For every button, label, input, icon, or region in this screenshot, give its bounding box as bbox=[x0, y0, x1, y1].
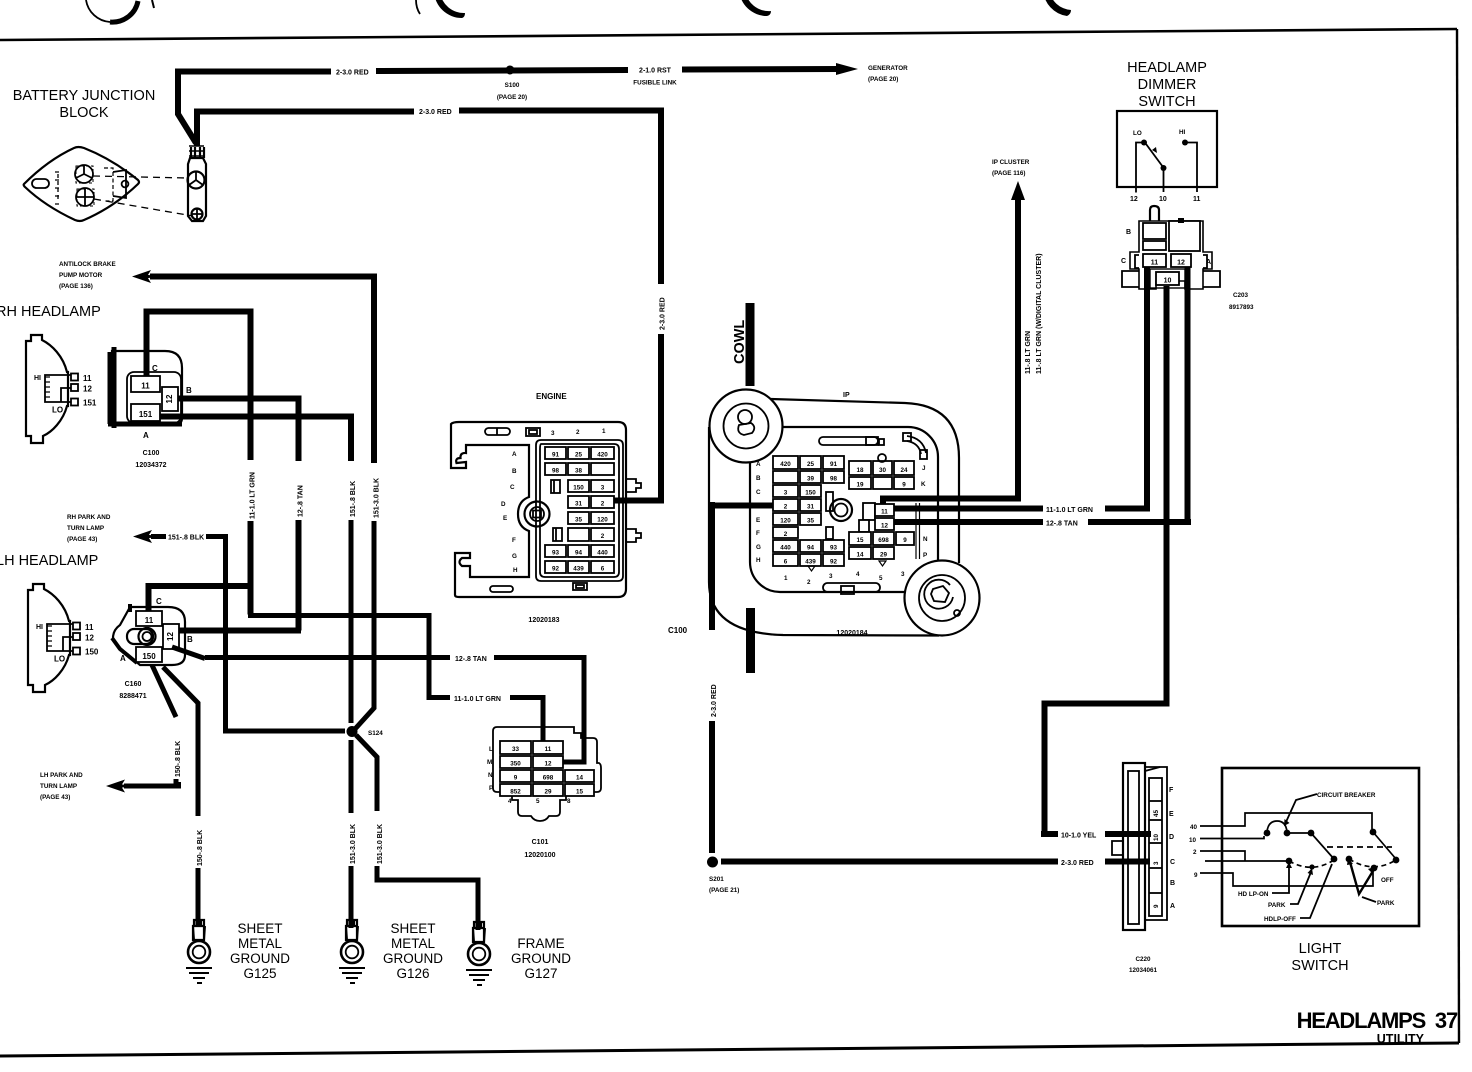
svg-text:11: 11 bbox=[145, 616, 154, 625]
C160 bulb symbol bbox=[127, 629, 153, 644]
svg-text:C101: C101 bbox=[532, 839, 549, 846]
svg-text:10: 10 bbox=[1153, 833, 1160, 841]
svg-text:C: C bbox=[756, 489, 761, 496]
wire 151-3.0 BLK continues to S124 diagonal bbox=[355, 521, 374, 729]
C100 pin 151 box bbox=[131, 404, 160, 421]
ground ring terminal G126 bbox=[339, 920, 365, 983]
svg-text:440: 440 bbox=[780, 545, 791, 552]
svg-text:2: 2 bbox=[1193, 849, 1197, 856]
svg-text:11: 11 bbox=[83, 374, 92, 383]
wire 151 circuit from RH pin A bbox=[160, 417, 351, 462]
svg-text:150-.8 BLK: 150-.8 BLK bbox=[175, 741, 182, 777]
svg-text:2: 2 bbox=[784, 531, 788, 538]
switch arm bbox=[1146, 144, 1163, 167]
svg-text:B: B bbox=[756, 475, 761, 482]
svg-text:G: G bbox=[512, 553, 517, 560]
svg-text:A: A bbox=[1170, 903, 1175, 910]
wire 12-.8 TAN to C101 bbox=[172, 647, 584, 762]
svg-text:C: C bbox=[152, 364, 158, 373]
svg-text:94: 94 bbox=[807, 545, 815, 552]
C100 pin 12 box (rotated) bbox=[162, 387, 178, 411]
connector C203 assembly bbox=[1121, 206, 1220, 289]
svg-text:HEADLAMP: HEADLAMP bbox=[1127, 60, 1207, 76]
svg-text:12020184: 12020184 bbox=[836, 630, 867, 637]
svg-text:2: 2 bbox=[601, 501, 605, 508]
svg-text:10-1.0 YEL: 10-1.0 YEL bbox=[1061, 833, 1097, 840]
wire 151-3.0 BLK antilock run bbox=[150, 277, 374, 464]
svg-text:2-3.0 RED: 2-3.0 RED bbox=[1061, 860, 1094, 867]
svg-text:TURN LAMP: TURN LAMP bbox=[67, 525, 104, 532]
wire 2-3.0 RED top run to generator bbox=[175, 69, 840, 72]
svg-text:98: 98 bbox=[552, 468, 560, 475]
svg-text:2: 2 bbox=[784, 504, 788, 511]
svg-text:C: C bbox=[1121, 258, 1126, 265]
svg-text:H: H bbox=[756, 557, 761, 564]
svg-text:9: 9 bbox=[903, 537, 907, 544]
svg-text:3: 3 bbox=[1153, 861, 1160, 865]
battery junction block dashed small detail bbox=[55, 172, 61, 204]
battery junction block side bracket bbox=[104, 168, 113, 201]
engine relay slot C bbox=[551, 480, 560, 493]
svg-text:G127: G127 bbox=[524, 966, 557, 981]
svg-text:M: M bbox=[487, 759, 492, 766]
svg-text:SHEET: SHEET bbox=[390, 921, 435, 936]
svg-text:C203: C203 bbox=[1233, 292, 1249, 299]
engine right tabs bbox=[626, 479, 641, 542]
wire 2-3.0 RED vertical lower part into engine fuse 2 bbox=[614, 334, 661, 501]
svg-text:91: 91 bbox=[830, 461, 838, 468]
svg-text:4: 4 bbox=[508, 798, 512, 805]
wire 11 circuit from RH pin C bbox=[147, 312, 251, 461]
svg-text:10: 10 bbox=[1189, 837, 1197, 844]
svg-text:93: 93 bbox=[830, 545, 838, 552]
svg-text:B: B bbox=[512, 468, 517, 475]
svg-text:ENGINE: ENGINE bbox=[536, 392, 567, 401]
svg-text:A: A bbox=[120, 654, 126, 663]
svg-text:LH HEADLAMP: LH HEADLAMP bbox=[0, 553, 98, 569]
svg-text:11-1.0 LT GRN: 11-1.0 LT GRN bbox=[454, 696, 501, 703]
svg-text:B: B bbox=[186, 386, 192, 395]
svg-text:F: F bbox=[512, 537, 516, 544]
page border top line bbox=[0, 29, 1457, 40]
IP N/P grid bbox=[849, 532, 871, 545]
IP fuse row D bbox=[773, 499, 798, 511]
splice S124 dot bbox=[347, 726, 358, 737]
svg-text:(PAGE 20): (PAGE 20) bbox=[497, 94, 527, 101]
scan artifact ring 2 bbox=[416, 0, 420, 14]
ground ring terminal G127 bbox=[466, 922, 492, 985]
svg-text:LH PARK AND: LH PARK AND bbox=[40, 772, 83, 779]
cowl boundary line lower bbox=[746, 608, 755, 673]
svg-text:25: 25 bbox=[807, 461, 815, 468]
svg-text:P: P bbox=[923, 552, 927, 559]
input wire 10 bbox=[1200, 836, 1264, 839]
wire from S124 down to G126 bbox=[349, 740, 354, 813]
scan artifact ring 3 bbox=[739, 0, 771, 16]
svg-text:35: 35 bbox=[575, 517, 583, 524]
svg-text:SHEET: SHEET bbox=[237, 921, 282, 936]
IP fuse row E bbox=[773, 513, 798, 525]
wire 12 circuit continues down to LH bbox=[296, 520, 302, 631]
svg-text:151-3.0 BLK: 151-3.0 BLK bbox=[377, 824, 384, 864]
wire 2-3.0 RED feed from battery terminal up bbox=[178, 72, 196, 143]
svg-text:PARK: PARK bbox=[1377, 900, 1395, 907]
svg-text:31: 31 bbox=[575, 501, 583, 508]
wire S124 diagonal down to G127 run bbox=[356, 735, 377, 811]
svg-text:852: 852 bbox=[510, 789, 521, 796]
svg-text:8288471: 8288471 bbox=[119, 693, 146, 700]
svg-text:C: C bbox=[1170, 859, 1175, 866]
svg-text:19: 19 bbox=[856, 482, 864, 489]
C203 side wings bbox=[1135, 255, 1207, 268]
svg-text:(PAGE 43): (PAGE 43) bbox=[40, 794, 70, 801]
svg-text:2-1.0 RST: 2-1.0 RST bbox=[639, 68, 672, 75]
IP top slot bbox=[819, 437, 878, 445]
svg-text:30: 30 bbox=[879, 467, 887, 474]
svg-text:2: 2 bbox=[807, 579, 811, 586]
wire 12-.8 TAN from IP to dimmer bbox=[894, 266, 1191, 525]
svg-text:LIGHT: LIGHT bbox=[1299, 941, 1342, 957]
svg-text:9: 9 bbox=[1153, 904, 1160, 908]
svg-text:698: 698 bbox=[543, 775, 554, 782]
svg-text:420: 420 bbox=[597, 452, 608, 459]
svg-text:C100: C100 bbox=[143, 450, 160, 457]
svg-text:12: 12 bbox=[544, 761, 552, 768]
svg-text:E: E bbox=[1169, 811, 1174, 818]
svg-text:439: 439 bbox=[805, 559, 816, 566]
svg-text:G126: G126 bbox=[396, 966, 429, 981]
svg-text:151: 151 bbox=[83, 399, 97, 408]
svg-text:9: 9 bbox=[902, 482, 906, 489]
svg-text:12: 12 bbox=[881, 523, 889, 530]
wire 11-.8 LT GRN to IP cluster bbox=[883, 198, 1021, 504]
C101 grid row P bbox=[500, 784, 531, 796]
svg-text:12020100: 12020100 bbox=[524, 852, 555, 859]
svg-text:11-1.0 LT GRN: 11-1.0 LT GRN bbox=[1046, 507, 1093, 514]
ring terminal upper eye bbox=[188, 172, 205, 189]
svg-text:11: 11 bbox=[85, 623, 94, 632]
svg-text:2: 2 bbox=[601, 533, 605, 540]
svg-text:5: 5 bbox=[536, 798, 540, 805]
wire G127 run continues right and down bbox=[377, 866, 478, 930]
svg-text:SWITCH: SWITCH bbox=[1291, 958, 1348, 974]
svg-text:3: 3 bbox=[551, 430, 555, 437]
IP corner slot bbox=[907, 436, 926, 454]
svg-text:5: 5 bbox=[879, 575, 883, 582]
scan artifact ring 1 bbox=[86, 0, 110, 22]
engine fuse row H bbox=[545, 561, 566, 573]
svg-text:120: 120 bbox=[780, 518, 791, 525]
arrow to RH park and turn lamp bbox=[133, 530, 153, 543]
svg-text:350: 350 bbox=[510, 761, 521, 768]
engine fuse row A bbox=[545, 447, 566, 459]
svg-text:(PAGE 20): (PAGE 20) bbox=[868, 76, 898, 83]
svg-text:12020183: 12020183 bbox=[528, 617, 559, 624]
svg-text:UTILITY: UTILITY bbox=[1377, 1032, 1425, 1046]
svg-text:11: 11 bbox=[545, 746, 552, 753]
C160 pin 12 box (rotated) bbox=[163, 624, 179, 649]
dashed arc left bbox=[1289, 860, 1334, 867]
svg-text:G125: G125 bbox=[243, 966, 276, 981]
svg-text:12034372: 12034372 bbox=[135, 462, 166, 469]
wire 11-1.0 LT GRN from IP to dimmer bbox=[894, 266, 1150, 511]
svg-text:RH HEADLAMP: RH HEADLAMP bbox=[0, 304, 101, 320]
svg-text:420: 420 bbox=[780, 461, 791, 468]
svg-text:1: 1 bbox=[784, 575, 788, 582]
C203 body bbox=[1130, 221, 1212, 289]
IP fuse row H bbox=[773, 554, 798, 566]
svg-text:D: D bbox=[1169, 834, 1174, 841]
wire 11 circuit continues down to LH bbox=[248, 521, 254, 615]
svg-text:S100: S100 bbox=[505, 82, 520, 89]
svg-text:12: 12 bbox=[83, 385, 92, 394]
pivot contact bbox=[1161, 165, 1167, 171]
engine relay slot F bbox=[553, 528, 562, 541]
svg-text:11: 11 bbox=[141, 382, 150, 391]
svg-text:D: D bbox=[501, 501, 506, 508]
svg-text:LO: LO bbox=[1133, 130, 1142, 137]
svg-text:E: E bbox=[503, 515, 507, 522]
svg-text:B: B bbox=[1170, 880, 1175, 887]
svg-text:12: 12 bbox=[165, 394, 174, 403]
svg-text:P: P bbox=[489, 785, 493, 792]
C203 pin 10 box bbox=[1150, 269, 1185, 288]
svg-text:L: L bbox=[489, 746, 493, 753]
C101 grid row N bbox=[500, 770, 531, 782]
svg-text:C: C bbox=[510, 484, 515, 491]
C203 left cavity boxes bbox=[1143, 223, 1166, 239]
scan artifact ring 4 bbox=[1043, 0, 1071, 16]
svg-text:TURN LAMP: TURN LAMP bbox=[40, 783, 77, 790]
SEC:c220 bbox=[1112, 763, 1175, 930]
svg-text:12034061: 12034061 bbox=[1129, 967, 1158, 974]
C203 pin 11 box bbox=[1143, 254, 1166, 267]
svg-text:DIMMER: DIMMER bbox=[1138, 77, 1197, 93]
svg-text:12: 12 bbox=[166, 632, 175, 641]
svg-text:18: 18 bbox=[856, 467, 864, 474]
svg-text:98: 98 bbox=[830, 476, 838, 483]
svg-text:(PAGE 43): (PAGE 43) bbox=[67, 536, 97, 543]
contact link CB to stationary bbox=[1289, 832, 1311, 834]
svg-text:S201: S201 bbox=[709, 876, 724, 883]
engine fuse row C bbox=[568, 480, 589, 492]
svg-text:12-.8 TAN: 12-.8 TAN bbox=[298, 485, 305, 517]
RH pin squares bbox=[71, 374, 78, 381]
svg-text:10: 10 bbox=[1164, 278, 1172, 285]
arrow to LH park and turn lamp bbox=[106, 780, 126, 793]
svg-text:91: 91 bbox=[552, 452, 560, 459]
LH headlamp body bbox=[28, 584, 70, 692]
svg-text:94: 94 bbox=[575, 550, 583, 557]
svg-text:IP CLUSTER: IP CLUSTER bbox=[992, 159, 1030, 166]
svg-text:4: 4 bbox=[856, 571, 860, 578]
wiper diagonal left bbox=[1311, 833, 1334, 859]
svg-text:GROUND: GROUND bbox=[511, 951, 571, 966]
IP fuse row B bbox=[773, 471, 798, 483]
svg-text:40: 40 bbox=[1190, 824, 1198, 831]
circuit breaker arc bbox=[1267, 821, 1287, 832]
dimmer switch box bbox=[1117, 111, 1217, 187]
svg-text:GROUND: GROUND bbox=[230, 951, 290, 966]
LO contact bbox=[1141, 140, 1147, 146]
dashed leader line 2 bbox=[94, 199, 193, 216]
svg-text:12: 12 bbox=[1177, 260, 1185, 267]
svg-text:9: 9 bbox=[1194, 872, 1198, 879]
HI contact bbox=[1182, 140, 1188, 146]
C220 cavity B bbox=[1149, 892, 1162, 894]
input wire 2 bbox=[1200, 851, 1245, 861]
wire 2-3.0 RED vertical to S201 bbox=[709, 502, 715, 630]
svg-text:BLOCK: BLOCK bbox=[59, 105, 108, 121]
svg-text:8: 8 bbox=[567, 798, 571, 805]
svg-text:150: 150 bbox=[573, 485, 584, 492]
svg-text:HI: HI bbox=[1179, 129, 1186, 136]
svg-text:C160: C160 bbox=[125, 681, 142, 688]
IP fuse row C bbox=[773, 485, 798, 497]
svg-text:FRAME: FRAME bbox=[517, 936, 564, 951]
battery junction block bolt 2 bbox=[76, 188, 94, 206]
svg-text:151-.8 BLK: 151-.8 BLK bbox=[168, 535, 204, 542]
svg-text:698: 698 bbox=[878, 537, 889, 544]
IP fuse row A bbox=[773, 456, 798, 469]
svg-text:6: 6 bbox=[784, 559, 788, 566]
svg-text:2-3.0 RED: 2-3.0 RED bbox=[419, 109, 452, 116]
svg-text:METAL: METAL bbox=[238, 936, 282, 951]
svg-text:N: N bbox=[923, 536, 928, 543]
IP bottom slot bbox=[823, 583, 880, 592]
svg-text:15: 15 bbox=[576, 789, 584, 796]
svg-text:150: 150 bbox=[85, 648, 99, 657]
wire 2-3.0 RED bottom run to C220 bbox=[721, 859, 1150, 865]
C220 left tab bbox=[1112, 841, 1123, 855]
wire 11-1.0 LT GRN branch to C101 bbox=[251, 612, 544, 742]
splice S100 bbox=[506, 66, 515, 75]
svg-text:G: G bbox=[756, 544, 761, 551]
engine fuse row G bbox=[545, 545, 566, 557]
wire 151 circuit continues down to S124 bbox=[349, 520, 354, 723]
engine top slots bbox=[485, 428, 510, 435]
svg-text:120: 120 bbox=[597, 517, 608, 524]
input wire 40 bbox=[1200, 813, 1372, 829]
svg-text:B: B bbox=[187, 635, 193, 644]
engine fuse row E bbox=[568, 512, 589, 524]
svg-text:3: 3 bbox=[829, 573, 833, 580]
terminal crimp detail bbox=[191, 147, 204, 158]
svg-text:150-.8 BLK: 150-.8 BLK bbox=[197, 830, 204, 866]
svg-text:GENERATOR: GENERATOR bbox=[868, 65, 908, 72]
svg-text:12-.8 TAN: 12-.8 TAN bbox=[1046, 521, 1078, 528]
svg-text:12: 12 bbox=[1130, 196, 1138, 203]
IP fuse row G bbox=[773, 540, 798, 552]
svg-text:2-3.0 RED: 2-3.0 RED bbox=[711, 684, 718, 717]
svg-text:33: 33 bbox=[512, 746, 520, 753]
svg-text:H: H bbox=[513, 567, 518, 574]
cowl boundary line upper bbox=[746, 303, 755, 386]
svg-text:151-3.0 BLK: 151-3.0 BLK bbox=[374, 478, 381, 518]
svg-text:ANTILOCK BRAKE: ANTILOCK BRAKE bbox=[59, 261, 116, 268]
svg-text:93: 93 bbox=[552, 550, 560, 557]
svg-text:2: 2 bbox=[576, 429, 580, 436]
engine central bolt bbox=[525, 502, 550, 527]
svg-text:C100: C100 bbox=[668, 626, 688, 635]
svg-text:HD LP-ON: HD LP-ON bbox=[1238, 891, 1269, 898]
svg-text:45: 45 bbox=[1153, 809, 1160, 817]
svg-text:N: N bbox=[488, 772, 493, 779]
svg-text:9: 9 bbox=[514, 775, 518, 782]
ring terminal lower eye bbox=[192, 209, 203, 220]
wire 12 circuit from RH pin B bbox=[178, 399, 299, 462]
svg-text:HEADLAMPS 37: HEADLAMPS 37 bbox=[1297, 1008, 1458, 1033]
contact dots bbox=[1264, 830, 1271, 837]
V pointer to PARK right bbox=[1350, 862, 1373, 894]
svg-text:(PAGE 116): (PAGE 116) bbox=[992, 170, 1025, 177]
IP bottom-right lobe bbox=[905, 561, 980, 636]
battery junction block slot bbox=[32, 179, 49, 188]
svg-text:CIRCUIT BREAKER: CIRCUIT BREAKER bbox=[1317, 792, 1376, 799]
dashed leader line 1 bbox=[93, 176, 187, 178]
RH headlamp socket bbox=[45, 375, 74, 402]
svg-text:B: B bbox=[1126, 229, 1131, 236]
wire 2-3.0 RED second run bbox=[197, 111, 661, 285]
svg-text:GROUND: GROUND bbox=[383, 951, 443, 966]
svg-text:151-.8 BLK: 151-.8 BLK bbox=[350, 481, 357, 517]
svg-text:11: 11 bbox=[1151, 260, 1159, 267]
engine block outer outline bbox=[451, 422, 626, 597]
engine fuse row F bbox=[568, 528, 589, 541]
svg-text:HI: HI bbox=[36, 624, 43, 631]
C101 grid row L bbox=[500, 741, 531, 754]
svg-text:151: 151 bbox=[139, 410, 153, 419]
wire 150 ground run continues bbox=[196, 868, 201, 926]
ring terminal bracket bbox=[188, 158, 206, 221]
svg-text:11-.8 LT GRN (W/DIGITAL CLUSTE: 11-.8 LT GRN (W/DIGITAL CLUSTER) bbox=[1036, 253, 1043, 374]
svg-text:14: 14 bbox=[856, 552, 864, 559]
wire 12 circuit LH branch bbox=[179, 628, 301, 634]
svg-text:440: 440 bbox=[597, 550, 608, 557]
wire LH park lamp to pin A vertical bbox=[124, 782, 179, 786]
C220 cavity F bbox=[1149, 800, 1162, 802]
C203 right cavity box bbox=[1169, 221, 1200, 251]
svg-text:31: 31 bbox=[807, 504, 815, 511]
connector C101 outline bbox=[493, 727, 601, 821]
svg-text:12-.8 TAN: 12-.8 TAN bbox=[455, 656, 487, 663]
battery junction block body bbox=[24, 147, 139, 221]
svg-text:IP: IP bbox=[843, 392, 850, 399]
svg-text:HI: HI bbox=[34, 375, 41, 382]
C220 right strip bbox=[1145, 767, 1167, 920]
svg-text:METAL: METAL bbox=[391, 936, 435, 951]
svg-text:150: 150 bbox=[805, 490, 816, 497]
C100 pin 11 box bbox=[131, 376, 160, 392]
svg-text:A: A bbox=[512, 451, 517, 458]
svg-text:3: 3 bbox=[601, 485, 605, 492]
svg-text:A: A bbox=[756, 461, 761, 468]
svg-text:RH PARK AND: RH PARK AND bbox=[67, 514, 111, 521]
svg-text:38: 38 bbox=[575, 468, 583, 475]
C160 pin 11 box bbox=[136, 611, 162, 626]
IP 11/12 boxes bbox=[863, 503, 875, 520]
svg-text:12: 12 bbox=[85, 634, 94, 643]
RH headlamp body bbox=[26, 335, 68, 443]
svg-text:BATTERY JUNCTION: BATTERY JUNCTION bbox=[13, 88, 156, 104]
C203 lock tab bbox=[1150, 206, 1159, 221]
svg-text:24: 24 bbox=[900, 467, 908, 474]
svg-text:14: 14 bbox=[576, 775, 584, 782]
IP central bolt bbox=[830, 499, 852, 521]
C101 grid row M bbox=[500, 756, 531, 768]
svg-text:10: 10 bbox=[1159, 196, 1167, 203]
engine inner connector wall bbox=[540, 444, 619, 577]
